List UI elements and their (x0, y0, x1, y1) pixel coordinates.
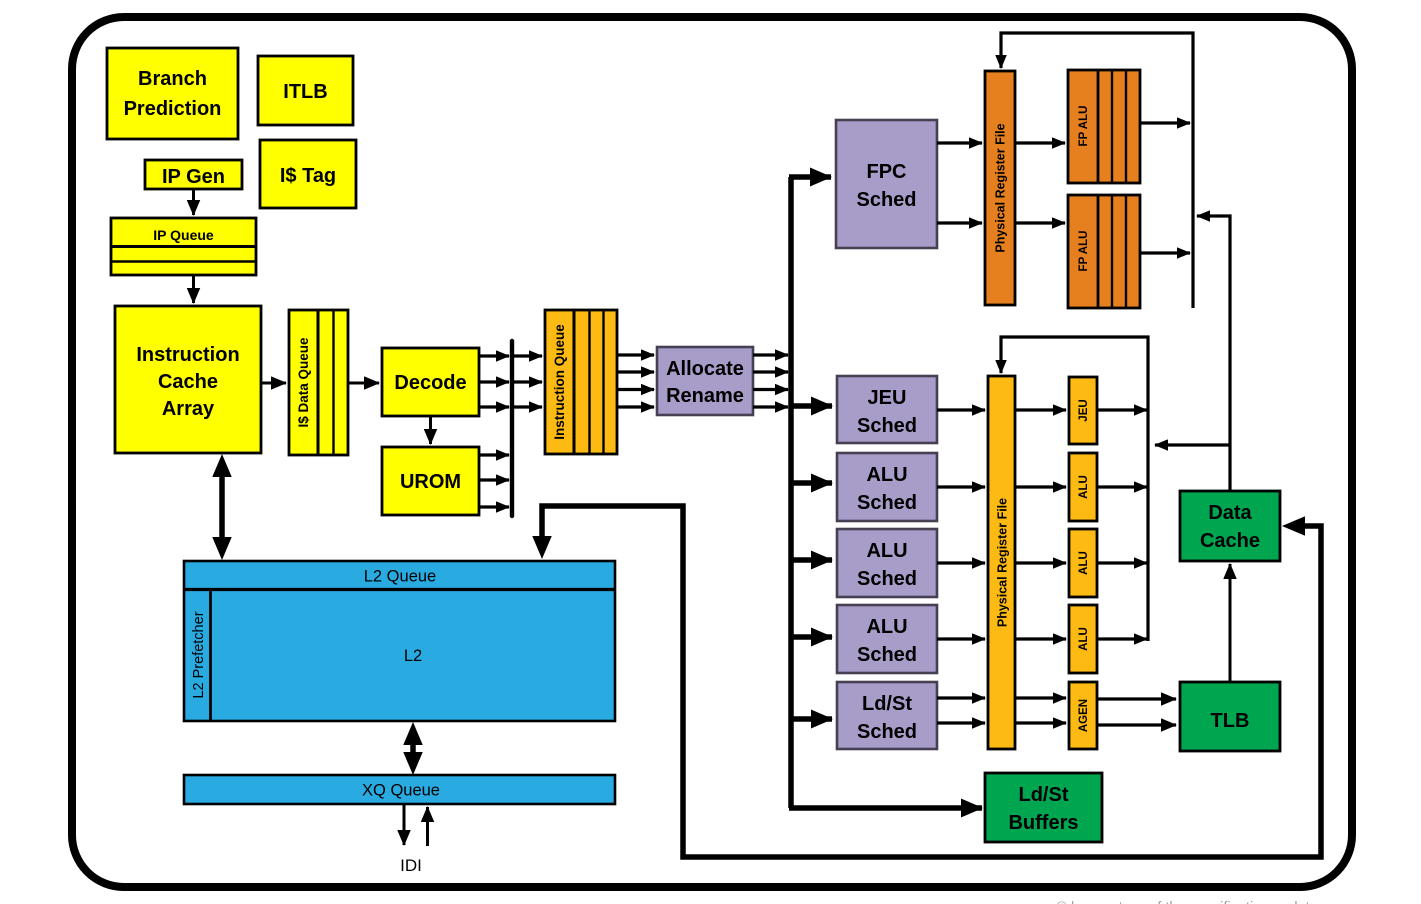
svg-text:Buffers: Buffers (1008, 812, 1078, 834)
svg-text:L2 Prefetcher: L2 Prefetcher (191, 611, 207, 698)
wire dispatch bus to ALU Sched 1 (791, 480, 832, 486)
Instruction Queue divider 2 (588, 310, 590, 454)
wire dispatch bus to JEU Sched (791, 403, 832, 409)
L2 Prefetcher divider (209, 590, 212, 722)
block JEU unit (1069, 377, 1097, 444)
L2 Queue divider (184, 588, 615, 591)
block AGEN unit (1069, 682, 1097, 749)
wire IP Gen to IP Queue (192, 189, 195, 215)
IP Queue divider 1 (111, 245, 256, 248)
svg-text:Cache: Cache (1200, 530, 1260, 552)
wire AGEN to TLB row1 (1097, 697, 1176, 700)
svg-text:AGEN: AGEN (1078, 699, 1090, 732)
wire Int PRF to AGEN row1 (1015, 696, 1066, 699)
svg-text:UROM: UROM (400, 471, 461, 493)
wire FP PRF to FP ALU 2 (1015, 221, 1065, 224)
block I$ Data Queue (289, 310, 348, 455)
FP ALU 1 stripe 3 (1125, 70, 1127, 183)
svg-text:Ld/St: Ld/St (862, 693, 912, 715)
svg-text:FP ALU: FP ALU (1078, 106, 1090, 147)
svg-text:Sched: Sched (857, 644, 917, 666)
block L2 with L2 Queue (184, 561, 615, 721)
svg-text:ALU: ALU (866, 540, 907, 562)
Instruction Queue divider 3 (602, 310, 604, 454)
decode bus vertical (510, 341, 514, 516)
svg-text:Branch: Branch (138, 68, 207, 90)
wire Allocate to dispatch bus row1 (753, 353, 788, 356)
FP writeback loop (1001, 33, 1193, 308)
FP ALU 2 stripe 2 (1111, 195, 1113, 308)
block ALU unit 3 (1069, 605, 1097, 673)
block Ld/St Sched (837, 682, 937, 749)
block ALU Sched 3 (837, 605, 937, 673)
svg-text:ALU: ALU (866, 616, 907, 638)
wire FP PRF to FP ALU 1 (1015, 141, 1065, 144)
block Data Cache (1180, 491, 1280, 561)
wire dispatch bus to ALU Sched 2 (791, 557, 832, 563)
wire Int PRF to ALU unit 2 (1015, 561, 1066, 564)
svg-text:ALU: ALU (1078, 551, 1090, 575)
wire ICA to I$ Data Queue (261, 382, 286, 385)
svg-text:ALU: ALU (1078, 475, 1090, 499)
wire Allocate to dispatch bus row4 (753, 405, 788, 408)
wire bus to Instruction Queue row2 (514, 380, 542, 383)
svg-text:Array: Array (162, 398, 215, 420)
wire Instruction Queue to Allocate row2 (617, 370, 654, 373)
wire JEU unit to int writeback line (1097, 408, 1147, 411)
wire ALU unit 3 to int writeback line (1097, 637, 1147, 640)
block FP ALU 1 (1068, 70, 1140, 183)
block JEU Sched (837, 376, 937, 443)
svg-text:Rename: Rename (666, 385, 744, 407)
svg-text:ALU: ALU (1078, 627, 1090, 651)
wire FPC Sched to FP PRF row1 (937, 141, 982, 144)
int writeback loop (1001, 337, 1148, 641)
svg-text:Ld/St: Ld/St (1019, 784, 1069, 806)
FP ALU 2 band divider (1097, 195, 1100, 308)
block Branch Prediction (107, 48, 238, 139)
wire UROM to bus row2 (479, 478, 509, 481)
wire Allocate to dispatch bus row3 (753, 388, 788, 391)
block FPC Sched (836, 120, 937, 248)
FP ALU 1 stripe 2 (1111, 70, 1113, 183)
FP ALU 2 stripe 3 (1125, 195, 1127, 308)
wire FP ALU 1 to FP writeback line (1140, 121, 1190, 124)
wire Decode to bus row3 (479, 405, 509, 408)
svg-text:Instruction Queue: Instruction Queue (552, 324, 567, 440)
block ALU unit 2 (1069, 529, 1097, 597)
svg-text:L2 Queue: L2 Queue (364, 568, 436, 586)
wire Instruction Queue to Allocate row1 (617, 353, 654, 356)
wire bus to Instruction Queue row3 (514, 405, 542, 408)
block Allocate Rename (657, 347, 753, 415)
svg-text:FP ALU: FP ALU (1078, 231, 1090, 272)
wire ALU unit 2 to int writeback line (1097, 561, 1147, 564)
wire XQ Queue to IDI down (403, 804, 406, 845)
wire Decode to bus row2 (479, 380, 509, 383)
block ALU unit 1 (1069, 453, 1097, 521)
wire ALU Sched 3 to Int PRF (937, 637, 985, 640)
block Decode (382, 348, 479, 416)
wire dispatch bus to Ld/St Buffers (789, 805, 982, 811)
svg-text:Allocate: Allocate (666, 358, 744, 380)
svg-text:IP Queue: IP Queue (153, 227, 214, 243)
IP Queue divider 2 (111, 260, 256, 262)
block TLB (1180, 682, 1280, 751)
svg-text:I$ Tag: I$ Tag (280, 165, 336, 187)
I$ Data Queue divider 2 (332, 310, 334, 455)
wire Allocate to dispatch bus row2 (753, 370, 788, 373)
block I$ Tag (260, 140, 356, 208)
block Integer Physical Register File (988, 376, 1015, 749)
wire dispatch bus to FPC Sched (789, 174, 831, 180)
block XQ Queue (184, 775, 615, 804)
svg-text:Physical Register File: Physical Register File (996, 498, 1010, 627)
svg-text:© by courtesy of the specifica: © by courtesy of the specification updat… (1056, 900, 1317, 904)
wire IDI to XQ Queue up (426, 807, 429, 846)
double arrow L2 to XQ Queue (410, 744, 416, 753)
svg-text:Decode: Decode (394, 372, 466, 394)
block ALU Sched 2 (837, 529, 937, 597)
svg-text:Sched: Sched (857, 415, 917, 437)
wire dispatch bus to ALU Sched 3 (791, 634, 832, 640)
wire JEU Sched to Int PRF (937, 408, 985, 411)
svg-text:XQ Queue: XQ Queue (362, 782, 440, 800)
block ALU Sched 1 (837, 453, 937, 521)
wire FP ALU 2 to FP writeback line (1140, 251, 1190, 254)
wire UROM to bus row1 (479, 453, 509, 456)
svg-text:Data: Data (1208, 502, 1252, 524)
dispatch bus vertical (788, 177, 794, 808)
svg-text:Physical Register File: Physical Register File (994, 123, 1008, 252)
wire Int PRF to JEU unit (1015, 408, 1066, 411)
block Instruction Queue (545, 310, 617, 454)
svg-text:Prediction: Prediction (124, 98, 222, 120)
I$ Data Queue divider 1 (317, 310, 320, 455)
svg-text:JEU: JEU (868, 387, 907, 409)
svg-text:TLB: TLB (1211, 710, 1250, 732)
wire ALU unit 1 to int writeback line (1097, 485, 1147, 488)
block IP Gen (145, 160, 242, 189)
wire Data Cache writeback to int line (1155, 443, 1230, 446)
wire Int PRF to AGEN row2 (1015, 721, 1066, 724)
svg-text:IP Gen: IP Gen (162, 166, 225, 188)
wire I$ Data Queue to Decode (348, 382, 379, 385)
wire ALU Sched 2 to Int PRF (937, 561, 985, 564)
svg-text:IDI: IDI (400, 856, 422, 875)
double arrow ICA to L2 Queue (219, 476, 225, 538)
wire Decode to bus row1 (479, 354, 509, 357)
wire Instruction Queue to Allocate row3 (617, 388, 654, 391)
wire Int PRF to ALU unit 1 (1015, 485, 1066, 488)
wire UROM to bus row3 (479, 505, 509, 508)
Instruction Queue band divider (573, 310, 576, 454)
svg-text:L2: L2 (404, 647, 422, 665)
wire Ld/St Sched to Int PRF row2 (937, 721, 985, 724)
svg-text:JEU: JEU (1078, 399, 1090, 421)
wire FPC Sched to FP PRF row2 (937, 221, 982, 224)
wire AGEN to TLB row2 (1097, 723, 1176, 726)
wire IP Queue to Instruction Cache Array (192, 275, 195, 303)
svg-text:Sched: Sched (857, 721, 917, 743)
block IP Queue (111, 218, 256, 275)
block Instruction Cache Array (115, 306, 261, 453)
wire Instruction Queue to Allocate row4 (617, 405, 654, 408)
wire Data Cache writeback to FP line (1197, 216, 1230, 491)
svg-text:I$ Data Queue: I$ Data Queue (296, 337, 311, 428)
svg-text:Instruction: Instruction (136, 344, 239, 366)
wire L2 Queue to Data Cache loop (542, 506, 1321, 857)
wire Int PRF to ALU unit 3 (1015, 637, 1066, 640)
block UROM (382, 447, 479, 515)
wire bus to Instruction Queue row1 (514, 354, 542, 357)
svg-text:Sched: Sched (856, 189, 916, 211)
wire Decode to UROM (429, 416, 432, 444)
svg-text:Sched: Sched (857, 568, 917, 590)
svg-text:Sched: Sched (857, 492, 917, 514)
wire Ld/St Sched to Int PRF row1 (937, 696, 985, 699)
wire ALU Sched 1 to Int PRF (937, 485, 985, 488)
wire dispatch bus to Ld/St Sched (791, 716, 832, 722)
svg-text:Cache: Cache (158, 371, 218, 393)
block FP Physical Register File (985, 71, 1015, 305)
block Ld/St Buffers (985, 773, 1102, 842)
svg-text:ALU: ALU (866, 464, 907, 486)
svg-text:ITLB: ITLB (283, 81, 327, 103)
block FP ALU 2 (1068, 195, 1140, 308)
svg-text:FPC: FPC (867, 161, 907, 183)
FP ALU 1 band divider (1097, 70, 1100, 183)
block ITLB (258, 56, 353, 125)
wire TLB to Data Cache (1229, 564, 1232, 682)
